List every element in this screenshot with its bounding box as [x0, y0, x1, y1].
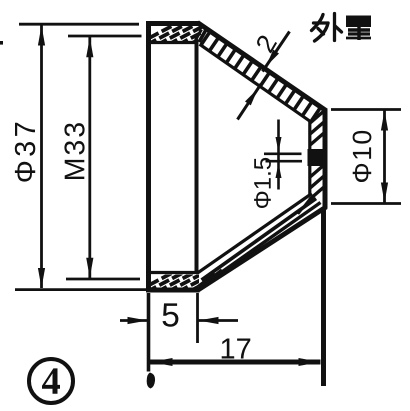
- dimension Φ1.5: lower arrow (points up): [276, 163, 282, 178]
- small hole Φ1.5: lower edge line: [266, 160, 303, 163]
- dimension 2: value label: [255, 34, 277, 54]
- dimension 5: right arrow line (outside): [199, 317, 239, 324]
- item balloon circle: [29, 359, 73, 403]
- dimension 17: value label: [222, 339, 251, 359]
- small hole Φ1.5: upper edge line: [264, 153, 302, 156]
- dimension Φ37: top arrow: [38, 26, 45, 46]
- dimension 17: dimension line: [150, 360, 321, 365]
- dimension 5: left extension line: [147, 293, 151, 372]
- dimension Φ37: bottom arrow: [38, 268, 45, 288]
- dimension M33: value label: [64, 123, 84, 179]
- part outline: right end face outer: [323, 109, 328, 209]
- dimension Φ10: value label: [353, 131, 372, 182]
- dimension 5: left arrow line (outside): [120, 317, 148, 324]
- dimension Φ10: dimension line: [383, 111, 386, 203]
- dimension Φ1.5: dimension line: [277, 120, 280, 190]
- ink blot below left extension line: [147, 373, 155, 389]
- dimension 2: lower arrow (points at inner face): [245, 89, 258, 106]
- item number 4: [42, 368, 60, 393]
- part outline: top conical inner wall: [200, 44, 312, 122]
- dimension Φ37: top extension line: [19, 23, 139, 26]
- part outline: bottom band inner line: [149, 271, 199, 274]
- dimension 2: upper leader line: [263, 32, 290, 72]
- dimension 2: upper arrow (points at outer face): [266, 50, 279, 67]
- title text 罩 (hand-drawn, heavy): [346, 16, 371, 41]
- section: solid ink at small hole through end wall: [308, 149, 328, 166]
- hatch: top wall section: [136, 26, 235, 45]
- dimension 2: lower leader line: [238, 84, 262, 120]
- dimension M33: bottom arrow: [86, 258, 93, 278]
- dimension Φ37: bottom extension line: [15, 288, 146, 291]
- dimension 17: right arrow: [299, 358, 321, 366]
- hatch: right end wall section: [310, 111, 325, 124]
- hatch: top conical wall section: [201, 31, 211, 45]
- dimension 5: right extension line: [196, 293, 199, 343]
- dimension Φ1.5: upper arrow (points down): [276, 137, 282, 152]
- dimension M33: top arrow: [86, 37, 93, 57]
- part outline: top outer wall (horizontal): [146, 21, 200, 26]
- dimension Φ10: bottom extension line: [331, 202, 401, 205]
- part outline: right end face inner: [308, 121, 311, 194]
- hatch: bottom wall section: [136, 273, 235, 292]
- hatch: bottom conical wall section: [202, 199, 317, 281]
- part outline: left outer face (open end): [146, 22, 151, 292]
- dimension Φ10: top extension line: [331, 108, 401, 111]
- dimension Φ1.5: value label: [254, 158, 271, 208]
- part outline: inner bore left wall: [195, 43, 199, 274]
- part outline: bottom conical outer wall: [198, 207, 327, 290]
- dimension Φ10: bottom arrow: [381, 183, 388, 203]
- dimension M33: bottom extension line: [66, 278, 140, 281]
- scan edge mark: [0, 41, 3, 45]
- dimension M33: dimension line: [88, 37, 91, 278]
- part outline: bottom outer wall (horizontal): [146, 288, 200, 293]
- dimension 17: left arrow: [151, 358, 173, 366]
- title text 外 (hand-drawn): [312, 14, 342, 42]
- dimension 17: right extension line: [321, 210, 326, 386]
- dimension 5: value label: [163, 303, 179, 326]
- part outline: top band inner line: [149, 41, 199, 44]
- dimension Φ37: value label: [15, 123, 36, 182]
- dimension Φ37: dimension line: [40, 26, 43, 289]
- dimension M33: top extension line: [68, 35, 142, 38]
- part outline: bottom conical inner wall: [198, 194, 312, 273]
- dimension Φ10: top arrow: [381, 111, 388, 131]
- part outline: top conical outer wall: [198, 23, 327, 111]
